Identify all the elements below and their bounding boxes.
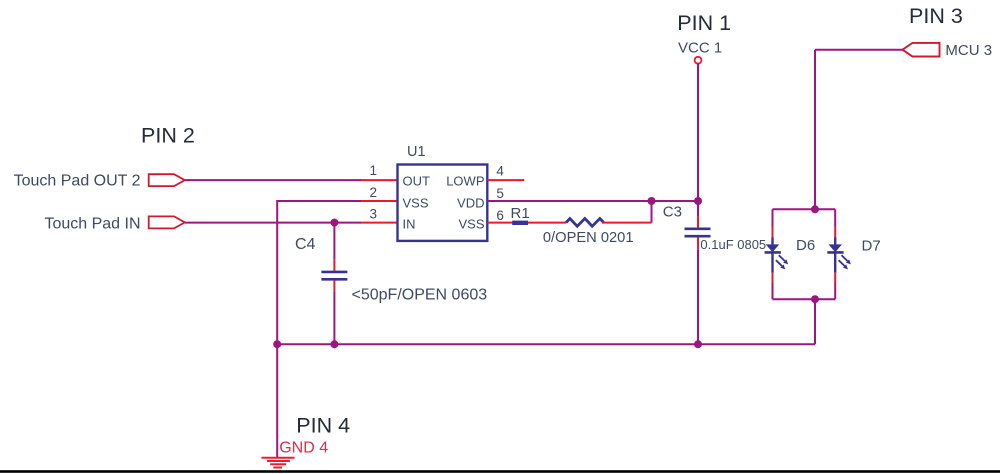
wire MCU net horizontal [815,49,903,51]
wire net VDD pin 5 [487,200,698,202]
LED top rail [773,208,836,210]
svg-text:LOWP: LOWP [446,174,484,189]
junction node VCC/VDD [694,197,702,205]
LED bottom rail [773,298,836,300]
svg-text:VDD: VDD [457,195,484,210]
off-page connector Touch Pad OUT 2 [149,174,185,186]
svg-text:C4: C4 [295,236,316,253]
svg-text:5: 5 [496,186,504,201]
svg-text:PIN 2: PIN 2 [141,124,195,148]
junction node bus left [273,340,281,348]
capacitor C3 plates [685,228,711,231]
svg-text:GND 4: GND 4 [279,440,328,457]
svg-text:IN: IN [403,217,416,232]
diode D6 symbol [765,238,789,273]
junction node bus C3 [694,340,702,348]
svg-text:6: 6 [496,208,504,223]
junction node R1/VDD [648,197,656,205]
svg-text:<50pF/OPEN 0603: <50pF/OPEN 0603 [352,287,488,304]
wire net VSS left [277,201,361,344]
capacitor C4 top wire [333,223,335,260]
ground bus wire [277,343,815,345]
junction node LED top [811,205,819,213]
svg-text:VSS: VSS [403,195,429,210]
resistor R1 body mark [512,221,528,225]
capacitor C3 top stub [697,216,699,227]
svg-text:VSS: VSS [458,217,484,232]
capacitor C3 bottom stub [697,238,699,250]
pin 4 stub [487,179,524,181]
svg-text:Touch Pad OUT 2: Touch Pad OUT 2 [14,172,141,189]
resistor R1 zigzag [566,219,604,227]
svg-text:PIN 4: PIN 4 [296,413,350,437]
svg-text:0/OPEN 0201: 0/OPEN 0201 [543,230,634,246]
capacitor C4 plates [321,271,347,274]
svg-text:C3: C3 [663,203,682,220]
wire C3 to ground bus [697,249,699,344]
svg-text:U1: U1 [407,144,426,160]
junction node IN/C4 [330,219,338,227]
svg-text:3: 3 [369,206,377,221]
op chip U1 box [398,165,488,241]
svg-text:Touch Pad IN: Touch Pad IN [44,216,140,233]
pin 3 stub [361,222,398,224]
capacitor C4 bottom stub [333,280,335,291]
svg-text:OUT: OUT [403,174,431,189]
ground symbol [262,458,295,468]
diode D6 cathode wires [772,273,774,283]
svg-text:D7: D7 [862,237,881,254]
wire net Touch Pad OUT to U1 [185,179,361,181]
capacitor C4 top stub [333,259,335,270]
off-page connector Touch Pad IN [149,216,185,228]
VCC open pin circle [695,57,702,64]
svg-text:VCC 1: VCC 1 [678,40,722,57]
pin 1 stub [361,179,398,181]
diode D7 symbol [827,238,851,273]
wire MCU net vertical [814,50,816,210]
off-page connector MCU 3 [903,43,940,57]
svg-text:PIN 1: PIN 1 [677,11,731,35]
svg-text:D6: D6 [796,237,815,254]
capacitor C4 bottom wire [333,292,335,345]
svg-text:PIN 3: PIN 3 [909,4,963,28]
wire R1 to C3 node [602,222,652,224]
pin 2 stub [361,200,398,202]
svg-text:2: 2 [369,185,377,200]
wire R1 riser [651,201,653,223]
diode D7 cathode wires [834,273,836,283]
wire LED rail to bus [814,299,816,344]
wire VCC vertical [697,64,699,217]
junction node LED bottom [811,295,819,303]
wire net Touch Pad IN to U1 [185,222,361,224]
page border bottom [0,470,1000,473]
svg-text:R1: R1 [511,205,530,222]
pin 6 wire to R1 [487,222,566,224]
svg-text:1: 1 [369,163,377,178]
svg-text:4: 4 [496,163,504,178]
diode D6 anode wires [772,209,774,226]
svg-text:0.1uF 0805: 0.1uF 0805 [700,237,766,252]
diode D7 anode wires [834,209,836,226]
wire ground drop [276,344,278,457]
svg-text:MCU 3: MCU 3 [945,42,992,59]
junction node bus C4 [330,340,338,348]
